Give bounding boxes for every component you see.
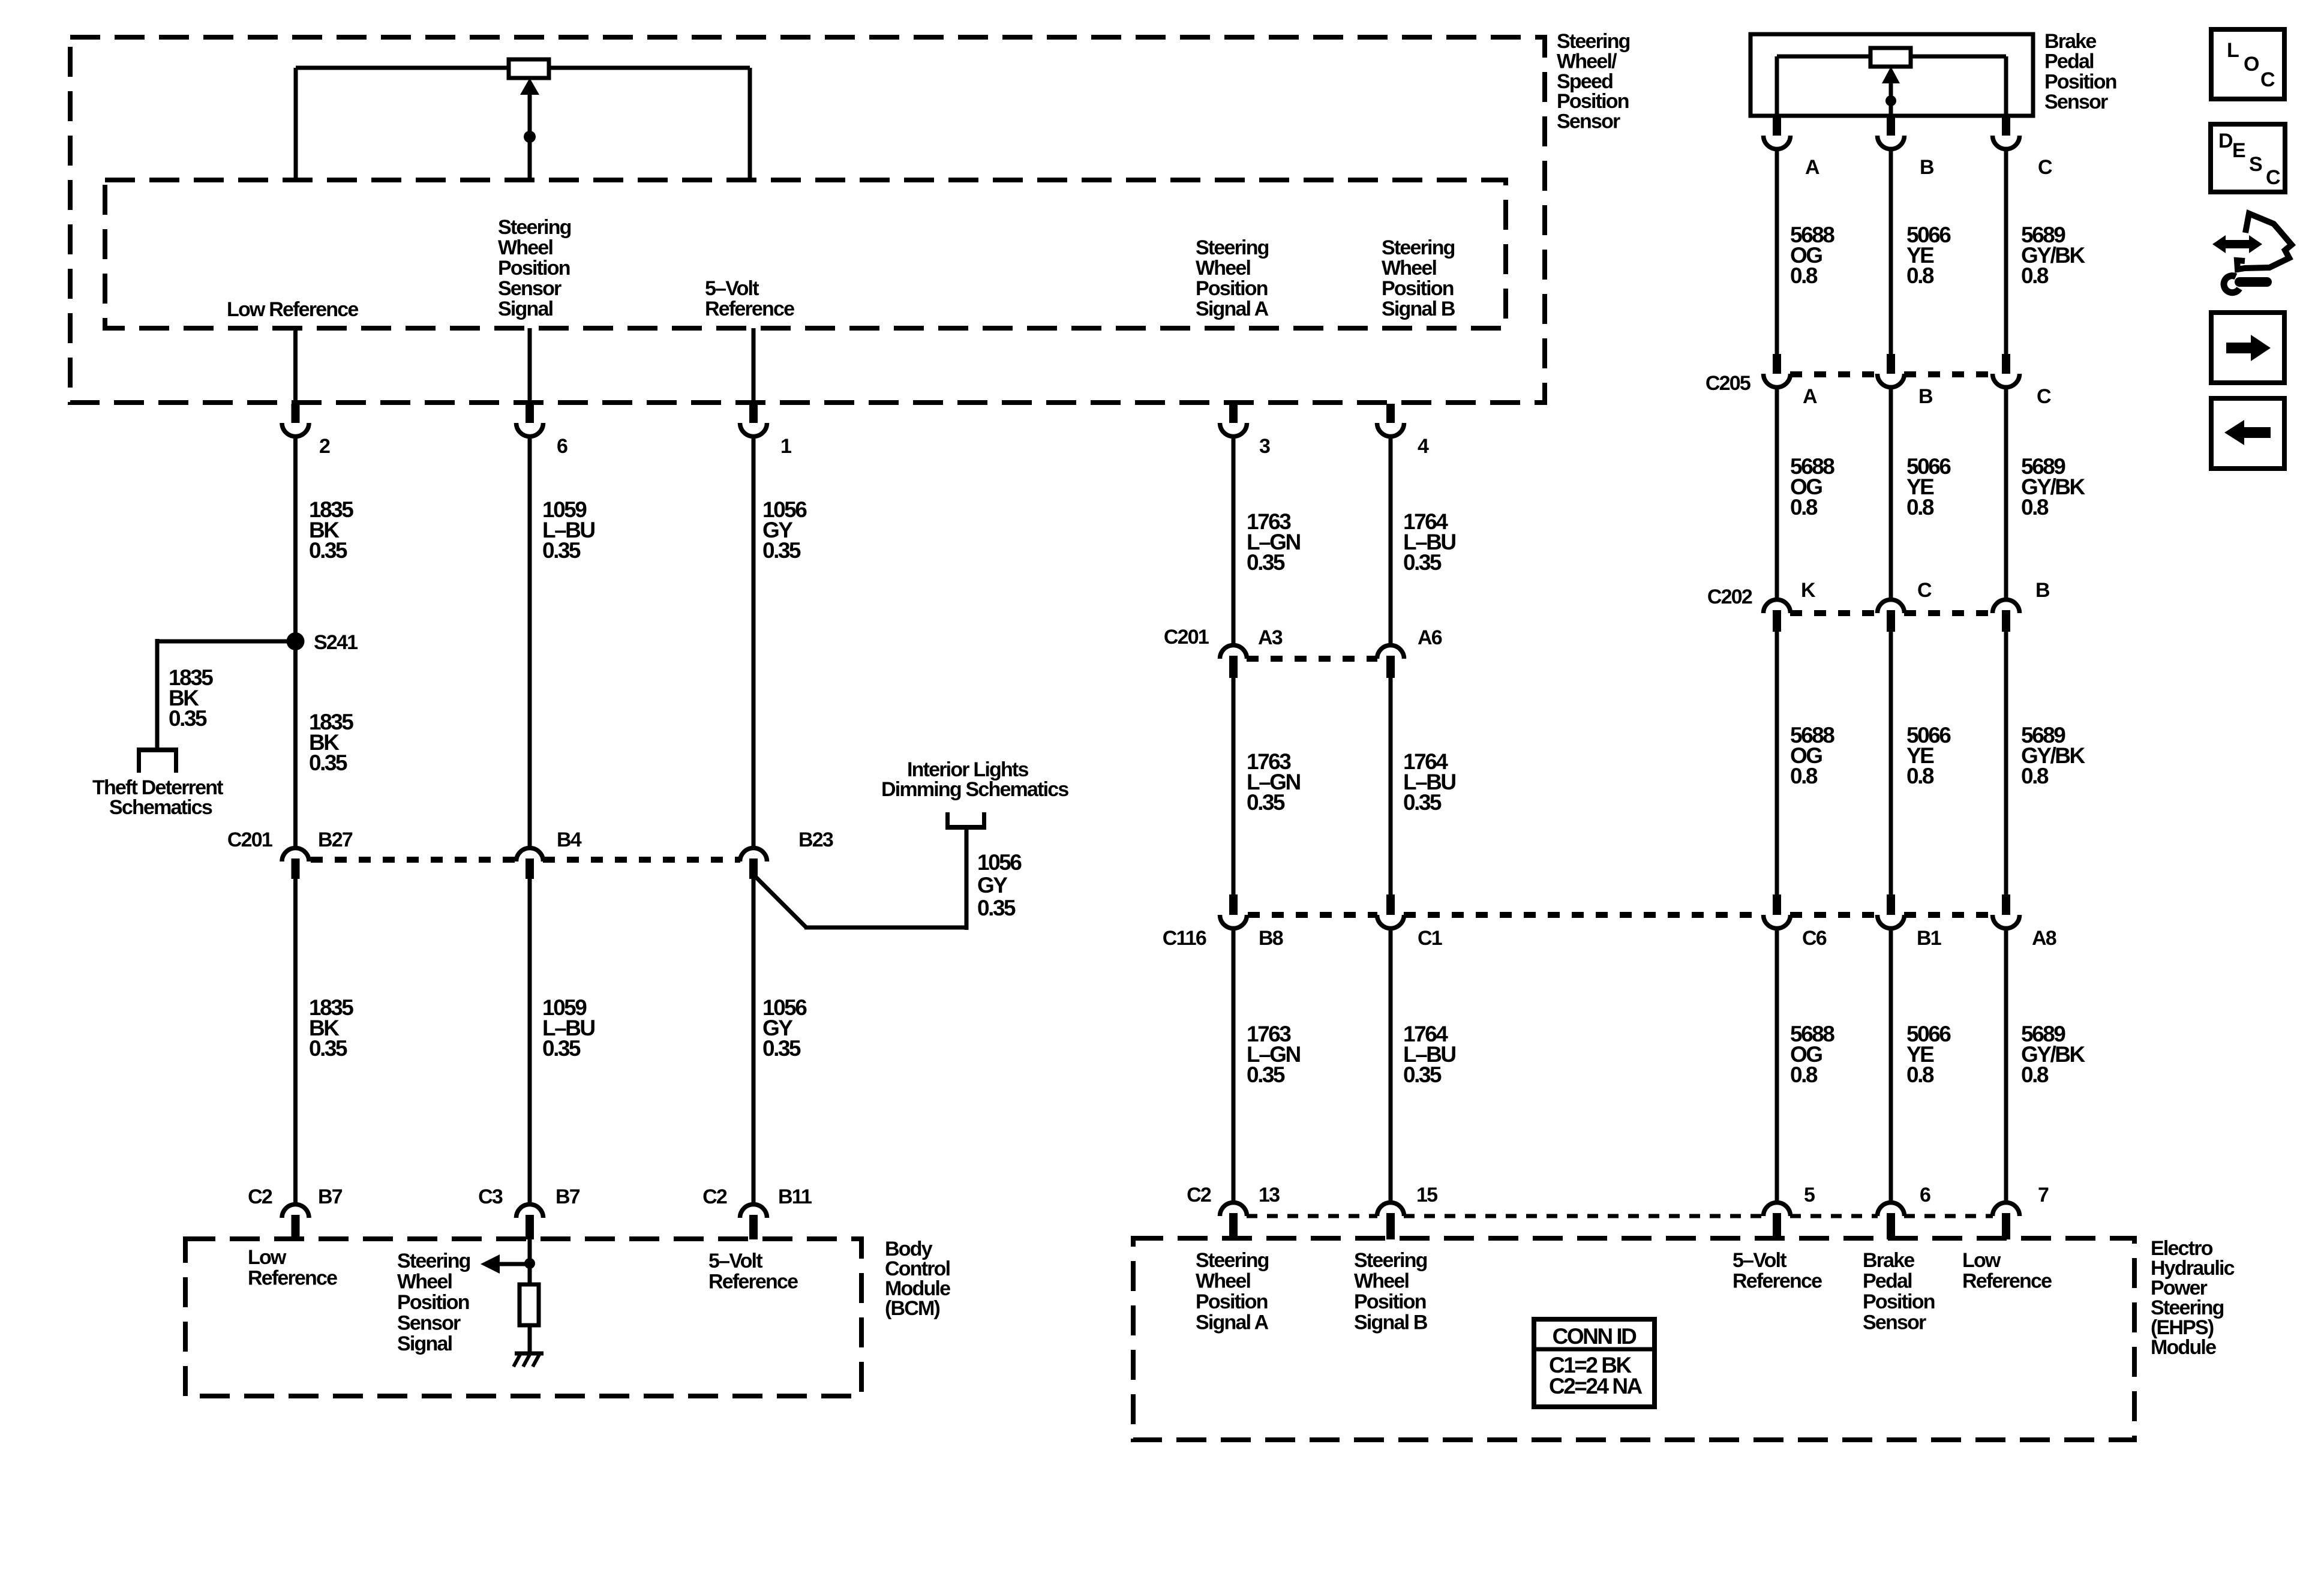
wire label 1056 GY 0.35 (seg2) [762,995,807,1061]
splice S241 dot [287,632,305,650]
wire label 1835 BK 0.35 (branch) [169,665,213,731]
svg-text:B: B [1918,385,1933,408]
wire label 1056 GY 0.35 (interior lights branch) [977,850,1022,920]
svg-text:1764L–BU0.35: 1764L–BU0.35 [1403,1022,1455,1087]
svg-text:S241: S241 [314,631,358,654]
pin label B8 [1259,927,1283,950]
signal arrow inside BCM [481,1254,530,1274]
svg-text:B7: B7 [556,1185,580,1208]
label Steering Wheel Position Signal B (EHPS) [1354,1249,1428,1334]
svg-text:C201: C201 [227,828,272,851]
resistor inside BCM [520,1284,539,1325]
wire label 1764 L-BU 0.35 (seg2) [1403,749,1455,815]
icon right arrow box [2211,313,2284,383]
connector C2/B7 at BCM (dome) [282,1205,309,1240]
potentiometer left leg wire [294,68,298,180]
label Low Reference (EHPS) [1962,1249,2052,1293]
brake potentiometer wiper arrow [1882,67,1900,116]
label 5-Volt Reference (EHPS) [1733,1249,1822,1293]
svg-text:O: O [2244,53,2259,76]
svg-text:5–VoltReference: 5–VoltReference [1733,1249,1822,1293]
svg-text:C201: C201 [1164,626,1209,649]
pin label 6 [557,435,568,458]
wire 1835 BK from C201 to BCM [293,879,298,1203]
wiper junction dot [524,131,536,143]
pin label C2 (BCM col3) [702,1185,727,1208]
svg-text:A8: A8 [2032,927,2056,950]
wire label 1059 L-BU 0.35 (seg1) [542,497,594,563]
wire label 1059 L-BU 0.35 (seg2) [542,995,594,1061]
svg-text:A6: A6 [1418,626,1442,649]
connector pin 4 at sensor box [1377,404,1404,437]
wire label 1835 BK 0.35 (seg3) [309,995,353,1061]
potentiometer right leg wire [748,68,752,180]
svg-text:C2: C2 [248,1185,272,1208]
svg-text:7: 7 [2038,1184,2049,1206]
label Steering Wheel Position Signal A (sensor) [1196,236,1269,320]
connector line C205 (dashed) [1790,371,1993,377]
svg-text:Schematics: Schematics [109,796,212,819]
svg-text:4: 4 [1418,435,1429,458]
svg-text:5689GY/BK0.8: 5689GY/BK0.8 [2021,723,2085,788]
pin label B23 [798,828,833,851]
svg-text:1764L–BU0.35: 1764L–BU0.35 [1403,749,1455,815]
connector C201 B27 (dome) [282,848,309,879]
connector C116 B8 (cup) [1220,894,1247,929]
svg-text:1059L–BU0.35: 1059L–BU0.35 [542,497,594,563]
connector pin 6 at sensor box [517,404,544,437]
icon DESC box [2211,124,2285,192]
connector 6 at EHPS (dome) [1878,1203,1905,1240]
wire 1056 GY from sensor to C201 [752,437,756,846]
pin label A3 [1258,626,1283,649]
label Interior Lights Dimming Schematics [881,758,1068,801]
wire 5689 GY/BK from brake sensor to C205 [2004,149,2008,354]
pin label B11 (BCM col3) [778,1185,812,1208]
svg-text:C: C [2266,166,2280,189]
pin label C205 B [1918,385,1933,408]
wire label 5066 YE 0.8 (seg1) [1906,223,1951,288]
label S241 [314,631,358,654]
wire label 1835 BK 0.35 (seg2) [309,710,353,775]
svg-text:Dimming Schematics: Dimming Schematics [881,778,1068,801]
svg-text:1: 1 [780,435,791,458]
svg-text:B: B [1920,156,1934,179]
label C201 (left) [227,828,272,851]
svg-text:C3: C3 [478,1185,503,1208]
wire label 1763 L-GN 0.35 (seg3) [1247,1022,1300,1087]
svg-text:1056GY0.35: 1056GY0.35 [762,995,807,1061]
wire label 1764 L-BU 0.35 (seg3) [1403,1022,1455,1087]
svg-text:Low Reference: Low Reference [227,298,358,321]
svg-text:5066YE0.8: 5066YE0.8 [1906,723,1951,788]
svg-text:5689GY/BK0.8: 5689GY/BK0.8 [2021,454,2085,520]
wire 1059 L-BU from sensor to C201 [528,437,532,846]
svg-text:SteeringWheelPositionSensorSig: SteeringWheelPositionSensorSignal [397,1250,470,1355]
chassis ground symbol [514,1353,544,1367]
connector C205 A (cup) [1764,354,1791,388]
wire 5066 YE from brake sensor to C205 [1889,149,1893,354]
svg-text:2: 2 [319,435,330,458]
svg-text:A: A [1805,156,1819,179]
wire resistor to ground [528,1325,532,1353]
wire 5689 GY/BK from C205 to C202 [2004,388,2008,598]
svg-text:K: K [1801,579,1816,602]
svg-text:SteeringWheelPositionSignal B: SteeringWheelPositionSignal B [1354,1249,1428,1334]
svg-text:BodyControlModule(BCM): BodyControlModule(BCM) [885,1238,950,1320]
wire 1835 BK branch to theft deterrent [157,639,296,750]
wire 5688 OG from brake sensor to C205 [1775,149,1779,354]
svg-text:B8: B8 [1259,927,1283,950]
wire label 1056 GY 0.35 (seg1) [762,497,807,563]
pin label 3 [1259,435,1270,458]
svg-text:B4: B4 [557,828,582,851]
label C116 [1163,927,1206,950]
svg-text:C2: C2 [702,1185,727,1208]
svg-text:LowReference: LowReference [248,1246,337,1290]
connector C201 B4 (dome) [517,848,544,879]
svg-text:1056GY0.35: 1056GY0.35 [762,497,807,563]
svg-text:B7: B7 [318,1185,343,1208]
svg-text:BrakePedalPositionSensor: BrakePedalPositionSensor [1863,1249,1935,1334]
connector line EHPS C1/C2 (fine dashed) [1247,1214,1993,1218]
wire 1835 BK from sensor to S241 and C201 [293,437,298,846]
svg-text:C205: C205 [1706,372,1750,395]
wire 5688 OG from C202 to C116 [1775,632,1779,894]
connector 13 at EHPS (dome) [1220,1203,1247,1240]
pin label B (brake) [1920,156,1934,179]
svg-text:1059L–BU0.35: 1059L–BU0.35 [542,995,594,1061]
CONN ID table [1534,1319,1655,1407]
steering wheel/speed position sensor outer box (dashed) [70,37,1545,403]
svg-text:3: 3 [1259,435,1270,458]
wire label 5689 GY/BK 0.8 (seg4) [2021,1022,2085,1087]
connector 7 at EHPS (dome) [1993,1203,2020,1240]
body control module (BCM) box (dashed) [185,1239,861,1396]
wire label 5066 YE 0.8 (seg2) [1906,454,1951,520]
wire label 5688 OG 0.8 (seg4) [1790,1022,1834,1087]
wire 1764 L-BU from sensor to C201 A6 [1389,437,1393,644]
svg-text:SteeringWheel/SpeedPositionSen: SteeringWheel/SpeedPositionSensor [1557,30,1630,133]
svg-text:6: 6 [557,435,568,458]
svg-text:1835BK0.35: 1835BK0.35 [309,995,353,1061]
label C201 (middle) [1164,626,1209,649]
pin label B27 [318,828,353,851]
wire label 5688 OG 0.8 (seg2) [1790,454,1834,520]
pin label A (brake) [1805,156,1819,179]
electro hydraulic power steering (EHPS) module box (dashed) [1133,1238,2134,1440]
brake pedal position sensor potentiometer resistor [1777,48,2006,67]
svg-text:C116: C116 [1163,927,1206,950]
wire 1835 BK segment inside sensor [293,328,298,404]
brake pedal position sensor box [1750,34,2033,116]
svg-text:C2=24 NA: C2=24 NA [1549,1374,1643,1398]
pin label C6 [1802,927,1827,950]
wire 5066 YE from C202 to C116 [1889,632,1893,894]
connector C205 B (cup) [1878,354,1905,388]
wire 1059 L-BU segment inside sensor [528,328,532,404]
wire label 5688 OG 0.8 (seg3) [1790,723,1834,788]
svg-text:C: C [2260,68,2275,91]
wire 1764 L-BU from C116 to EHPS [1389,929,1393,1201]
wire label 5689 GY/BK 0.8 (seg2) [2021,454,2085,520]
wire label 5066 YE 0.8 (seg3) [1906,723,1951,788]
connector pin A at brake sensor box [1764,117,1791,149]
svg-text:B1: B1 [1917,927,1941,950]
wire 1763 L-GN from sensor to C201 A3 [1232,437,1236,644]
wire label 1763 L-GN 0.35 (seg2) [1247,749,1300,815]
wire 1763 L-GN from C116 to EHPS [1232,929,1236,1201]
svg-text:1763L–GN0.35: 1763L–GN0.35 [1247,749,1300,815]
svg-text:13: 13 [1259,1184,1280,1206]
svg-text:C6: C6 [1802,927,1827,950]
connector C116 C1 (cup) [1377,894,1404,929]
connector pin 2 at sensor box [282,404,309,437]
svg-text:B23: B23 [798,828,833,851]
svg-text:5688OG0.8: 5688OG0.8 [1790,1022,1834,1087]
pin label 13 [1259,1184,1280,1206]
svg-text:C: C [2037,385,2051,408]
junction dot inside BCM [524,1258,535,1269]
connector C201 A6 (dome) [1377,646,1404,678]
label Steering Wheel Position Signal B (sensor) [1382,236,1455,320]
svg-text:B: B [2035,579,2050,602]
svg-text:1835BK0.35: 1835BK0.35 [169,665,213,731]
svg-text:BrakePedalPositionSensor: BrakePedalPositionSensor [2044,30,2116,113]
label Body Control Module (BCM) [885,1238,950,1320]
label Low Reference (BCM) [248,1246,337,1290]
wire 5066 YE from C116 to EHPS [1889,929,1893,1201]
pin label 15 [1416,1184,1437,1206]
svg-text:1835BK0.35: 1835BK0.35 [309,710,353,775]
svg-text:L: L [2227,39,2239,62]
connector pin B at brake sensor box [1878,117,1905,149]
svg-text:1763L–GN0.35: 1763L–GN0.35 [1247,1022,1300,1087]
label Steering Wheel Position Sensor Signal (BCM) [397,1250,470,1355]
pin label C1 [1418,927,1442,950]
svg-text:C1: C1 [1418,927,1442,950]
connector C205 C (cup) [1993,354,2020,388]
pin label 4 [1418,435,1429,458]
svg-text:5: 5 [1804,1184,1815,1206]
label Steering Wheel Position Sensor Signal (sensor) [498,216,571,320]
connector C116 A8 (cup) [1993,894,2020,929]
connector 15 at EHPS (dome) [1377,1203,1404,1240]
svg-text:SteeringWheelPositionSignal A: SteeringWheelPositionSignal A [1196,236,1269,320]
svg-text:C202: C202 [1707,586,1752,608]
brake potentiometer left leg wire [1775,56,1779,116]
svg-text:SteeringWheelPositionSignal A: SteeringWheelPositionSignal A [1196,1249,1269,1334]
wire label 5689 GY/BK 0.8 (seg1) [2021,223,2085,288]
wire label 5066 YE 0.8 (seg4) [1906,1022,1951,1087]
svg-text:5066YE0.8: 5066YE0.8 [1906,1022,1951,1087]
wire 1763 L-GN from C201 to C116 [1232,678,1236,894]
pin label C (brake) [2038,156,2052,179]
pin label C205 A [1803,385,1817,408]
label Steering Wheel Position Signal A (EHPS) [1196,1249,1269,1334]
svg-text:1056GY0.35: 1056GY0.35 [977,850,1022,920]
wire label 1835 BK 0.35 (seg1) [309,497,353,563]
wire 5688 OG from C116 to EHPS [1775,929,1779,1201]
label Theft Deterrent Schematics [92,776,223,819]
wire label 5689 GY/BK 0.8 (seg3) [2021,723,2085,788]
wire label 1763 L-GN 0.35 (seg1) [1247,509,1300,575]
svg-text:15: 15 [1416,1184,1437,1206]
label C205 [1706,372,1750,395]
svg-text:5688OG0.8: 5688OG0.8 [1790,223,1834,288]
wire 1056 GY segment inside sensor [752,328,756,404]
pin label B1 [1917,927,1941,950]
label 5-Volt Reference (BCM) [708,1250,798,1293]
connector C116 C6 (cup) [1764,894,1791,929]
pin label C2 (BCM col1) [248,1185,272,1208]
pin label 6 (EHPS) [1920,1184,1930,1206]
pin label 1 [780,435,791,458]
connector C201 B23 (dome) [740,848,767,879]
svg-text:SteeringWheelPositionSignal B: SteeringWheelPositionSignal B [1382,236,1455,320]
svg-text:LowReference: LowReference [1962,1249,2052,1293]
connector C2/B11 at BCM (dome) [740,1205,767,1240]
connector C201 A3 (dome) [1220,646,1247,678]
label 5-Volt Reference (sensor) [705,277,794,320]
icon LOC box [2211,29,2284,99]
connector C202 C (dome) [1878,600,1905,632]
svg-text:SteeringWheelPositionSensorSig: SteeringWheelPositionSensorSignal [498,216,571,320]
svg-text:5688OG0.8: 5688OG0.8 [1790,454,1834,520]
wire 1056 GY branch to interior lights [753,828,966,930]
potentiometer wiper arrow [520,78,539,180]
label Brake Pedal Position Sensor [2044,30,2116,113]
svg-text:D: D [2218,130,2233,152]
pin label C202 C [1917,579,1932,602]
svg-text:E: E [2232,139,2245,162]
svg-text:C: C [2038,156,2052,179]
connector C202 K (dome) [1764,600,1791,632]
svg-text:C: C [1917,579,1932,602]
svg-text:C2: C2 [1187,1184,1211,1206]
svg-text:5–VoltReference: 5–VoltReference [705,277,794,320]
pin label C2 (EHPS) [1187,1184,1211,1206]
icon left arrow box [2211,398,2284,469]
connector C202 B (dome) [1993,600,2020,632]
pin label 2 [319,435,330,458]
off-page bracket theft deterrent [137,750,178,773]
label Brake Pedal Position Sensor (EHPS) [1863,1249,1935,1334]
brake wiper junction dot [1885,95,1896,106]
svg-text:B27: B27 [318,828,353,851]
pin label C202 B [2035,579,2050,602]
svg-text:1835BK0.35: 1835BK0.35 [309,497,353,563]
pin label C3 (BCM col2) [478,1185,503,1208]
svg-text:6: 6 [1920,1184,1930,1206]
brake potentiometer right leg wire [2004,56,2008,116]
svg-text:5689GY/BK0.8: 5689GY/BK0.8 [2021,1022,2085,1087]
connector C116 B1 (cup) [1878,894,1905,929]
svg-text:CONN ID: CONN ID [1553,1324,1637,1349]
pin label 7 [2038,1184,2049,1206]
connector line C201 middle (dashed) [1247,656,1377,662]
svg-text:5688OG0.8: 5688OG0.8 [1790,723,1834,788]
connector pin 1 at sensor box [740,404,767,437]
pin label B4 [557,828,582,851]
pin label 5 [1804,1184,1815,1206]
svg-text:5–VoltReference: 5–VoltReference [708,1250,798,1293]
svg-text:A3: A3 [1258,626,1283,649]
pin label A8 [2032,927,2056,950]
connector line C201 left (dashed) [311,857,740,863]
off-page bracket interior lights [945,812,986,827]
pin label B7 (BCM col1) [318,1185,343,1208]
label Steering Wheel/Speed Position Sensor [1557,30,1630,133]
connector 5 at EHPS (dome) [1764,1203,1791,1240]
steering wheel position sensor inner box (dashed) [105,180,1506,328]
svg-text:1763L–GN0.35: 1763L–GN0.35 [1247,509,1300,575]
pin label A6 [1418,626,1442,649]
connector line C116 (dashed) [1248,912,1993,918]
svg-text:B11: B11 [778,1185,812,1208]
svg-text:S: S [2249,153,2262,176]
pin label B7 (BCM col2) [556,1185,580,1208]
pin label C202 K [1801,579,1816,602]
label C202 [1707,586,1752,608]
svg-text:A: A [1803,385,1817,408]
wire 5689 GY/BK from C116 to EHPS [2004,929,2008,1201]
connector line C202 (dashed) [1790,610,1993,616]
wire 5689 GY/BK from C202 to C116 [2004,632,2008,894]
label Electro Hydraulic Power Steering (EHPS) Module [2151,1237,2235,1359]
wire label 5688 OG 0.8 (seg1) [1790,223,1834,288]
wire stub inside BCM [528,1239,532,1284]
wire 1056 GY from C201 to BCM [752,879,756,1203]
wire 5066 YE from C205 to C202 [1889,388,1893,598]
connector C3/B7 at BCM (dome) [517,1205,544,1240]
pin label C205 C [2037,385,2051,408]
connector pin 3 at sensor box [1220,404,1247,437]
wire label 1764 L-BU 0.35 (seg1) [1403,509,1455,575]
svg-text:1764L–BU0.35: 1764L–BU0.35 [1403,509,1455,575]
label Low Reference (sensor) [227,298,358,321]
icon diagnostic tool [2212,214,2292,293]
wire 1764 L-BU from C201 to C116 [1389,678,1393,894]
svg-text:5689GY/BK0.8: 5689GY/BK0.8 [2021,223,2085,288]
svg-text:5066YE0.8: 5066YE0.8 [1906,223,1951,288]
svg-text:ElectroHydraulicPowerSteering(: ElectroHydraulicPowerSteering(EHPS)Modul… [2151,1237,2235,1359]
wire 5688 OG from C205 to C202 [1775,388,1779,598]
steering wheel position sensor potentiometer resistor [296,59,750,78]
svg-text:5066YE0.8: 5066YE0.8 [1906,454,1951,520]
wire 1059 L-BU from C201 to BCM [528,879,532,1203]
connector pin C at brake sensor box [1993,117,2020,149]
